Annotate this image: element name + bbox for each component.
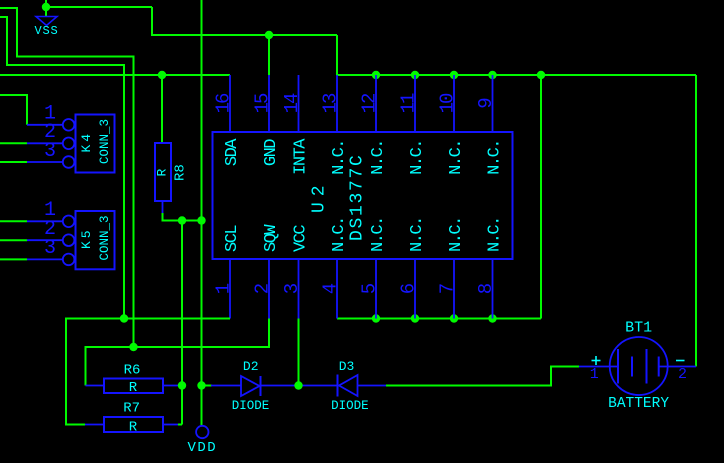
svg-text:BT1: BT1 [625,320,652,337]
svg-text:N.C.: N.C. [330,217,349,252]
wire to U2 pin 15 [268,35,270,75]
junction R8 top on SDA net [158,71,166,79]
diode D2 leads [211,385,338,387]
wire VSS corner to pin 13 and along top pin row [337,35,696,75]
junction R8 bottom with VDD column [197,216,205,224]
svg-text:N.C.: N.C. [369,140,388,175]
svg-text:K4: K4 [79,131,94,153]
svg-text:11: 11 [398,93,420,113]
resistor R8 body [155,143,171,201]
svg-text:SCL: SCL [223,225,242,252]
wire SDA net down to R8 [161,75,163,143]
svg-text:R7: R7 [123,401,140,417]
wire bottom pin row pins 4-8 [337,318,541,320]
resistor R8 bottom pin stub [162,201,164,214]
svg-text:R6: R6 [124,363,141,379]
wire R8 bottom to junction row [163,213,202,221]
battery minus sign [676,360,685,362]
svg-text:D2: D2 [243,359,259,374]
resistor R7 body [104,417,163,432]
diode D2 cathode bar [260,376,262,396]
junction net B with SCL wire [120,314,128,322]
svg-text:8: 8 [475,283,497,294]
junction R8 bottom with R6/R7 column [178,216,186,224]
wire VSS net right side down to battery minus [695,75,697,367]
diode D3 triangle [339,375,358,396]
wire VDD column from top edge down [201,0,203,426]
wire net A from left edge [0,8,134,347]
wire to K5 pin 1 [0,220,27,222]
svg-text:D3: D3 [339,359,355,374]
svg-text:DIODE: DIODE [331,399,369,413]
svg-text:13: 13 [320,93,342,113]
svg-text:N.C.: N.C. [330,140,349,175]
junction net A with SQW wire [129,343,137,351]
svg-text:DIODE: DIODE [232,399,270,413]
connector K4 body and pins [27,115,115,173]
diode D2 triangle [241,376,260,396]
wire SCL net pin1 to R7 left [66,319,230,425]
svg-text:1: 1 [213,283,235,294]
wire SDA net from left edge to U2 pin 16 [0,74,230,76]
svg-text:3: 3 [44,237,56,260]
resistor R6 leads [86,385,183,387]
diode D3 cathode bar [337,375,339,397]
power symbol VDD circle [196,426,208,438]
U2 top pin lines [230,75,493,132]
svg-text:12: 12 [359,93,381,113]
wire VDD node to D2 anode [202,385,213,387]
svg-text:K5: K5 [79,227,94,249]
svg-text:R: R [129,420,138,436]
svg-text:16: 16 [213,93,235,113]
svg-text:2: 2 [252,283,274,294]
svg-text:N.C.: N.C. [447,140,466,175]
svg-text:VDD: VDD [187,440,217,456]
svg-text:R8: R8 [173,164,189,181]
junction battery branch top [537,71,545,79]
svg-text:R: R [129,380,138,396]
svg-text:9: 9 [475,98,497,109]
svg-text:CONN_3: CONN_3 [98,215,112,260]
svg-text:15: 15 [252,93,274,113]
svg-text:5: 5 [359,283,381,294]
junction at pin 15 column [265,31,273,39]
svg-text:N.C.: N.C. [408,217,427,252]
svg-text:4: 4 [320,283,342,294]
wire SQW net pin2 to R6 left [86,319,270,386]
junction VCC with diode row [294,381,302,389]
U2 bottom pin lines [230,259,493,319]
svg-text:CONN_3: CONN_3 [98,119,112,164]
svg-text:DS1377C: DS1377C [348,153,368,241]
svg-text:BATTERY: BATTERY [608,396,669,412]
wire VSS net down to pin row [152,7,337,35]
wire VCC net pin3 down to diode row [298,319,300,386]
wire to K5 pin 3 [0,258,27,260]
resistor R7 leads [85,424,178,426]
svg-text:R: R [155,169,170,177]
junction pin 10 top [450,71,458,79]
wire to K4 pin 1 [0,95,27,125]
svg-text:N.C.: N.C. [486,217,505,252]
wire to K5 pin 2 [0,239,27,241]
svg-text:N.C.: N.C. [369,217,388,252]
junction pin 6 bottom [411,314,419,322]
junction pin 8 bottom [488,314,496,322]
wire R6/R7 right column [181,221,183,425]
svg-text:U2: U2 [310,179,330,213]
svg-text:INTA: INTA [292,138,311,175]
svg-text:3: 3 [44,140,56,163]
battery BT1 plates [618,349,659,384]
battery BT1 circle [610,337,668,395]
svg-text:2: 2 [678,366,687,383]
wire down to bottom pin row [540,75,542,319]
wire to K4 pin 2 [0,142,27,144]
resistor R6 body [104,379,163,394]
svg-text:GND: GND [262,139,281,166]
svg-text:10: 10 [437,93,459,113]
power symbol VSS triangle [36,17,57,26]
svg-text:N.C.: N.C. [486,140,505,175]
wire VSS net to the right [46,6,152,8]
junction VDD node [197,381,205,389]
svg-text:1: 1 [590,366,599,383]
svg-text:14: 14 [281,93,303,113]
svg-text:VCC: VCC [292,225,311,252]
junction pin 11 top [411,71,419,79]
battery BT1 leads [579,366,696,368]
junction R6 right with column [178,381,186,389]
junction pin 9 top [488,71,496,79]
diode D3 anode lead [358,385,387,387]
svg-text:SDA: SDA [223,138,242,166]
svg-text:SQW: SQW [262,224,281,252]
junction pin 5 bottom [372,314,380,322]
junction pin 12 top [372,71,380,79]
wire net B from left edge [0,17,124,319]
svg-text:7: 7 [437,284,459,294]
wire D3 anode to battery plus [386,367,579,386]
svg-text:N.C.: N.C. [408,140,427,175]
svg-text:VSS: VSS [34,24,58,38]
connector K5 body and pins [27,211,115,269]
wire R7 right to column [178,424,182,426]
junction pin 7 bottom [450,314,458,322]
junction VSS net [42,3,50,11]
svg-text:3: 3 [281,283,303,294]
wire VSS vertical stub from top edge [45,0,47,17]
wire to K4 pin 3 [0,161,27,163]
op-amp-style IC U2 body [213,132,513,259]
svg-text:6: 6 [398,283,420,294]
svg-text:N.C.: N.C. [447,217,466,252]
battery plus sign [592,356,601,365]
